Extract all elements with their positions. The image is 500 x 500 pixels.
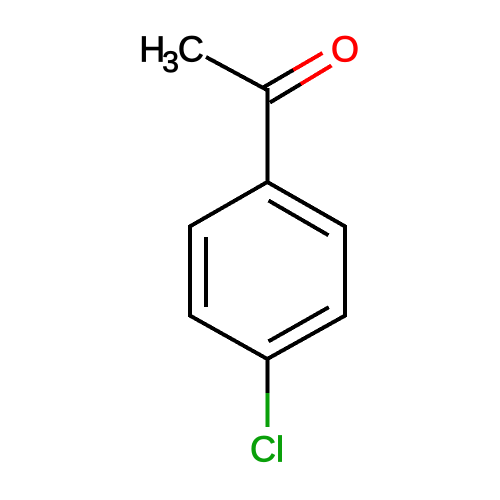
svg-text:3: 3 — [162, 46, 179, 79]
svg-text:C: C — [178, 28, 204, 69]
svg-text:O: O — [331, 28, 359, 69]
svg-text:Cl: Cl — [250, 429, 284, 470]
